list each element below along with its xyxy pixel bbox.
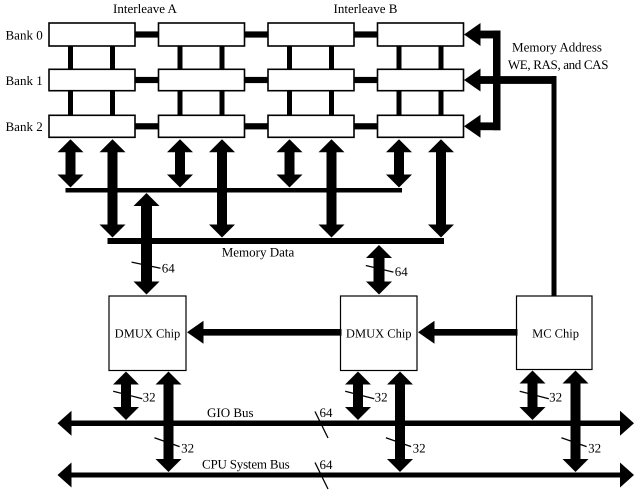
wire: Bank 0 inter-bank horizontal links <box>133 31 380 37</box>
memory bank rect: Interleave B col 4, Bank 0 <box>378 23 464 46</box>
svg-text:Bank 1: Bank 1 <box>6 73 43 88</box>
wire: Bank 2 inter-bank horizontal links <box>133 123 380 129</box>
svg-text:64: 64 <box>320 405 334 420</box>
memory bank rect: Interleave A col 1, Bank 2 <box>49 115 135 137</box>
svg-text:32: 32 <box>413 440 426 455</box>
arrow: bank column 1 data to lower memory-data bus <box>100 139 126 237</box>
arrow: bank column 1 data to upper memory-data bus <box>58 139 84 187</box>
svg-text:Bank 0: Bank 0 <box>6 27 43 42</box>
memory bank rect: Interleave B col 4, Bank 2 <box>378 115 464 137</box>
wire: address vertical trunk <box>493 31 501 131</box>
memory bank rect: Interleave A col 1, Bank 0 <box>49 23 135 46</box>
memory bank rect: Interleave B col 4, Bank 1 <box>378 69 464 90</box>
svg-text:DMUX Chip: DMUX Chip <box>346 327 412 341</box>
svg-text:Interleave B: Interleave B <box>334 1 398 16</box>
arrow: DMUX chip 2 to GIO bus (32-bit) <box>345 372 371 421</box>
tick: 64-bit slash on DMUX1 feed <box>132 262 161 268</box>
tick: 32-bit slash (DMUX2-CPU) <box>386 438 411 447</box>
arrow: MC chip to DMUX chip 2 control <box>418 321 518 344</box>
arrow: bank column 2 data to upper memory-data bus <box>167 139 193 187</box>
svg-text:32: 32 <box>375 390 388 405</box>
tick: 64-bit slash on DMUX2 feed <box>366 266 394 273</box>
tick: 32-bit slash (MC-CPU) <box>561 438 586 447</box>
tick: 32-bit slash (MC-GIO) <box>520 391 549 399</box>
svg-text:WE, RAS, and CAS: WE, RAS, and CAS <box>508 57 608 72</box>
wire: bank column 1 row-interconnect stubs <box>68 35 115 127</box>
arrow: MC chip to CPU system bus (32-bit) <box>563 371 589 473</box>
svg-text:32: 32 <box>143 390 156 405</box>
svg-text:Bank 2: Bank 2 <box>6 119 43 134</box>
tick: 64-bit slash on GIO bus <box>315 412 328 439</box>
box: DMUX chip U1 <box>109 296 186 371</box>
svg-text:32: 32 <box>588 440 601 455</box>
memory bank rect: Interleave B col 3, Bank 2 <box>268 115 354 137</box>
arrowhead: GIO bus right end <box>620 411 634 436</box>
memory bank rect: Interleave A col 1, Bank 1 <box>49 69 135 90</box>
svg-text:64: 64 <box>395 264 409 279</box>
svg-text:CPU System Bus: CPU System Bus <box>202 456 290 471</box>
arrow: upper bus to DMUX chip 1 (64-bit) <box>134 193 160 295</box>
arrow: lower bus to DMUX chip 2 (64-bit) <box>366 245 392 295</box>
arrow: MC chip to GIO bus (32-bit) <box>520 371 546 421</box>
wire: bank column 3 row-interconnect stubs <box>287 35 334 127</box>
wire: Bank 1 inter-bank horizontal links <box>133 77 380 83</box>
svg-text:64: 64 <box>162 261 176 276</box>
memory bank rect: Interleave A col 2, Bank 2 <box>159 115 245 137</box>
arrow: DMUX chip 1 to GIO bus (32-bit) <box>113 372 139 421</box>
svg-text:GIO Bus: GIO Bus <box>207 405 254 420</box>
wire: bank column 2 row-interconnect stubs <box>178 35 225 127</box>
wire: bank column 4 row-interconnect stubs <box>397 35 444 127</box>
wire: lower memory-data bus (Memory Data) <box>108 238 445 244</box>
svg-text:MC Chip: MC Chip <box>532 327 579 341</box>
wire: address branch to MC chip (horizontal) <box>480 76 557 84</box>
arrow: bank column 4 data to upper memory-data bus <box>386 139 412 187</box>
arrow: bank column 4 data to lower memory-data bus <box>428 139 454 237</box>
arrow: DMUX chip 2 to DMUX chip 1 control <box>187 321 342 344</box>
arrow: DMUX chip 1 to CPU system bus (32-bit) <box>156 372 182 473</box>
tick: 64-bit slash on CPU bus <box>315 463 328 490</box>
memory bank rect: Interleave A col 2, Bank 0 <box>159 23 245 46</box>
tick: 32-bit slash (DMUX1-GIO) <box>113 391 142 399</box>
tick: 32-bit slash (DMUX2-GIO) <box>345 391 374 399</box>
arrowhead: CPU system bus left end <box>58 463 72 488</box>
svg-text:Interleave A: Interleave A <box>113 1 177 16</box>
memory bank rect: Interleave B col 3, Bank 1 <box>268 69 354 90</box>
wire: address stub Bank 0 row <box>480 31 501 39</box>
arrowhead: CPU system bus right end <box>620 463 634 488</box>
svg-text:Memory Data: Memory Data <box>222 244 295 259</box>
memory bank rect: Interleave A col 2, Bank 1 <box>159 69 245 90</box>
svg-text:Memory Address: Memory Address <box>512 40 602 55</box>
svg-text:32: 32 <box>549 390 562 405</box>
arrowhead: GIO bus left end <box>58 411 72 436</box>
box: MC chip U3 <box>517 296 593 370</box>
svg-text:64: 64 <box>320 457 334 472</box>
tick: 32-bit slash (DMUX1-CPU) <box>154 438 179 447</box>
svg-text:DMUX Chip: DMUX Chip <box>115 327 181 341</box>
arrow: bank column 3 data to upper memory-data bus <box>277 139 303 187</box>
arrowhead: memory address into Bank 1 row <box>464 69 481 92</box>
arrow: bank column 2 data to lower memory-data bus <box>209 139 235 237</box>
arrowhead: memory address into Bank 0 row <box>464 23 481 46</box>
box: DMUX chip U2 <box>341 296 418 371</box>
wire: CPU system bus line <box>68 473 622 478</box>
arrow: DMUX chip 2 to CPU system bus (32-bit) <box>387 372 413 473</box>
wire: address branch to MC chip (vertical drop) <box>552 76 557 296</box>
wire: upper memory-data bus <box>66 188 403 193</box>
wire: address stub Bank 2 row <box>480 122 501 130</box>
wire: GIO bus line <box>68 421 622 427</box>
arrowhead: memory address into Bank 2 row <box>464 115 481 138</box>
arrow: bank column 3 data to lower memory-data bus <box>319 139 345 237</box>
memory bank rect: Interleave B col 3, Bank 0 <box>268 23 354 46</box>
svg-text:32: 32 <box>181 440 194 455</box>
